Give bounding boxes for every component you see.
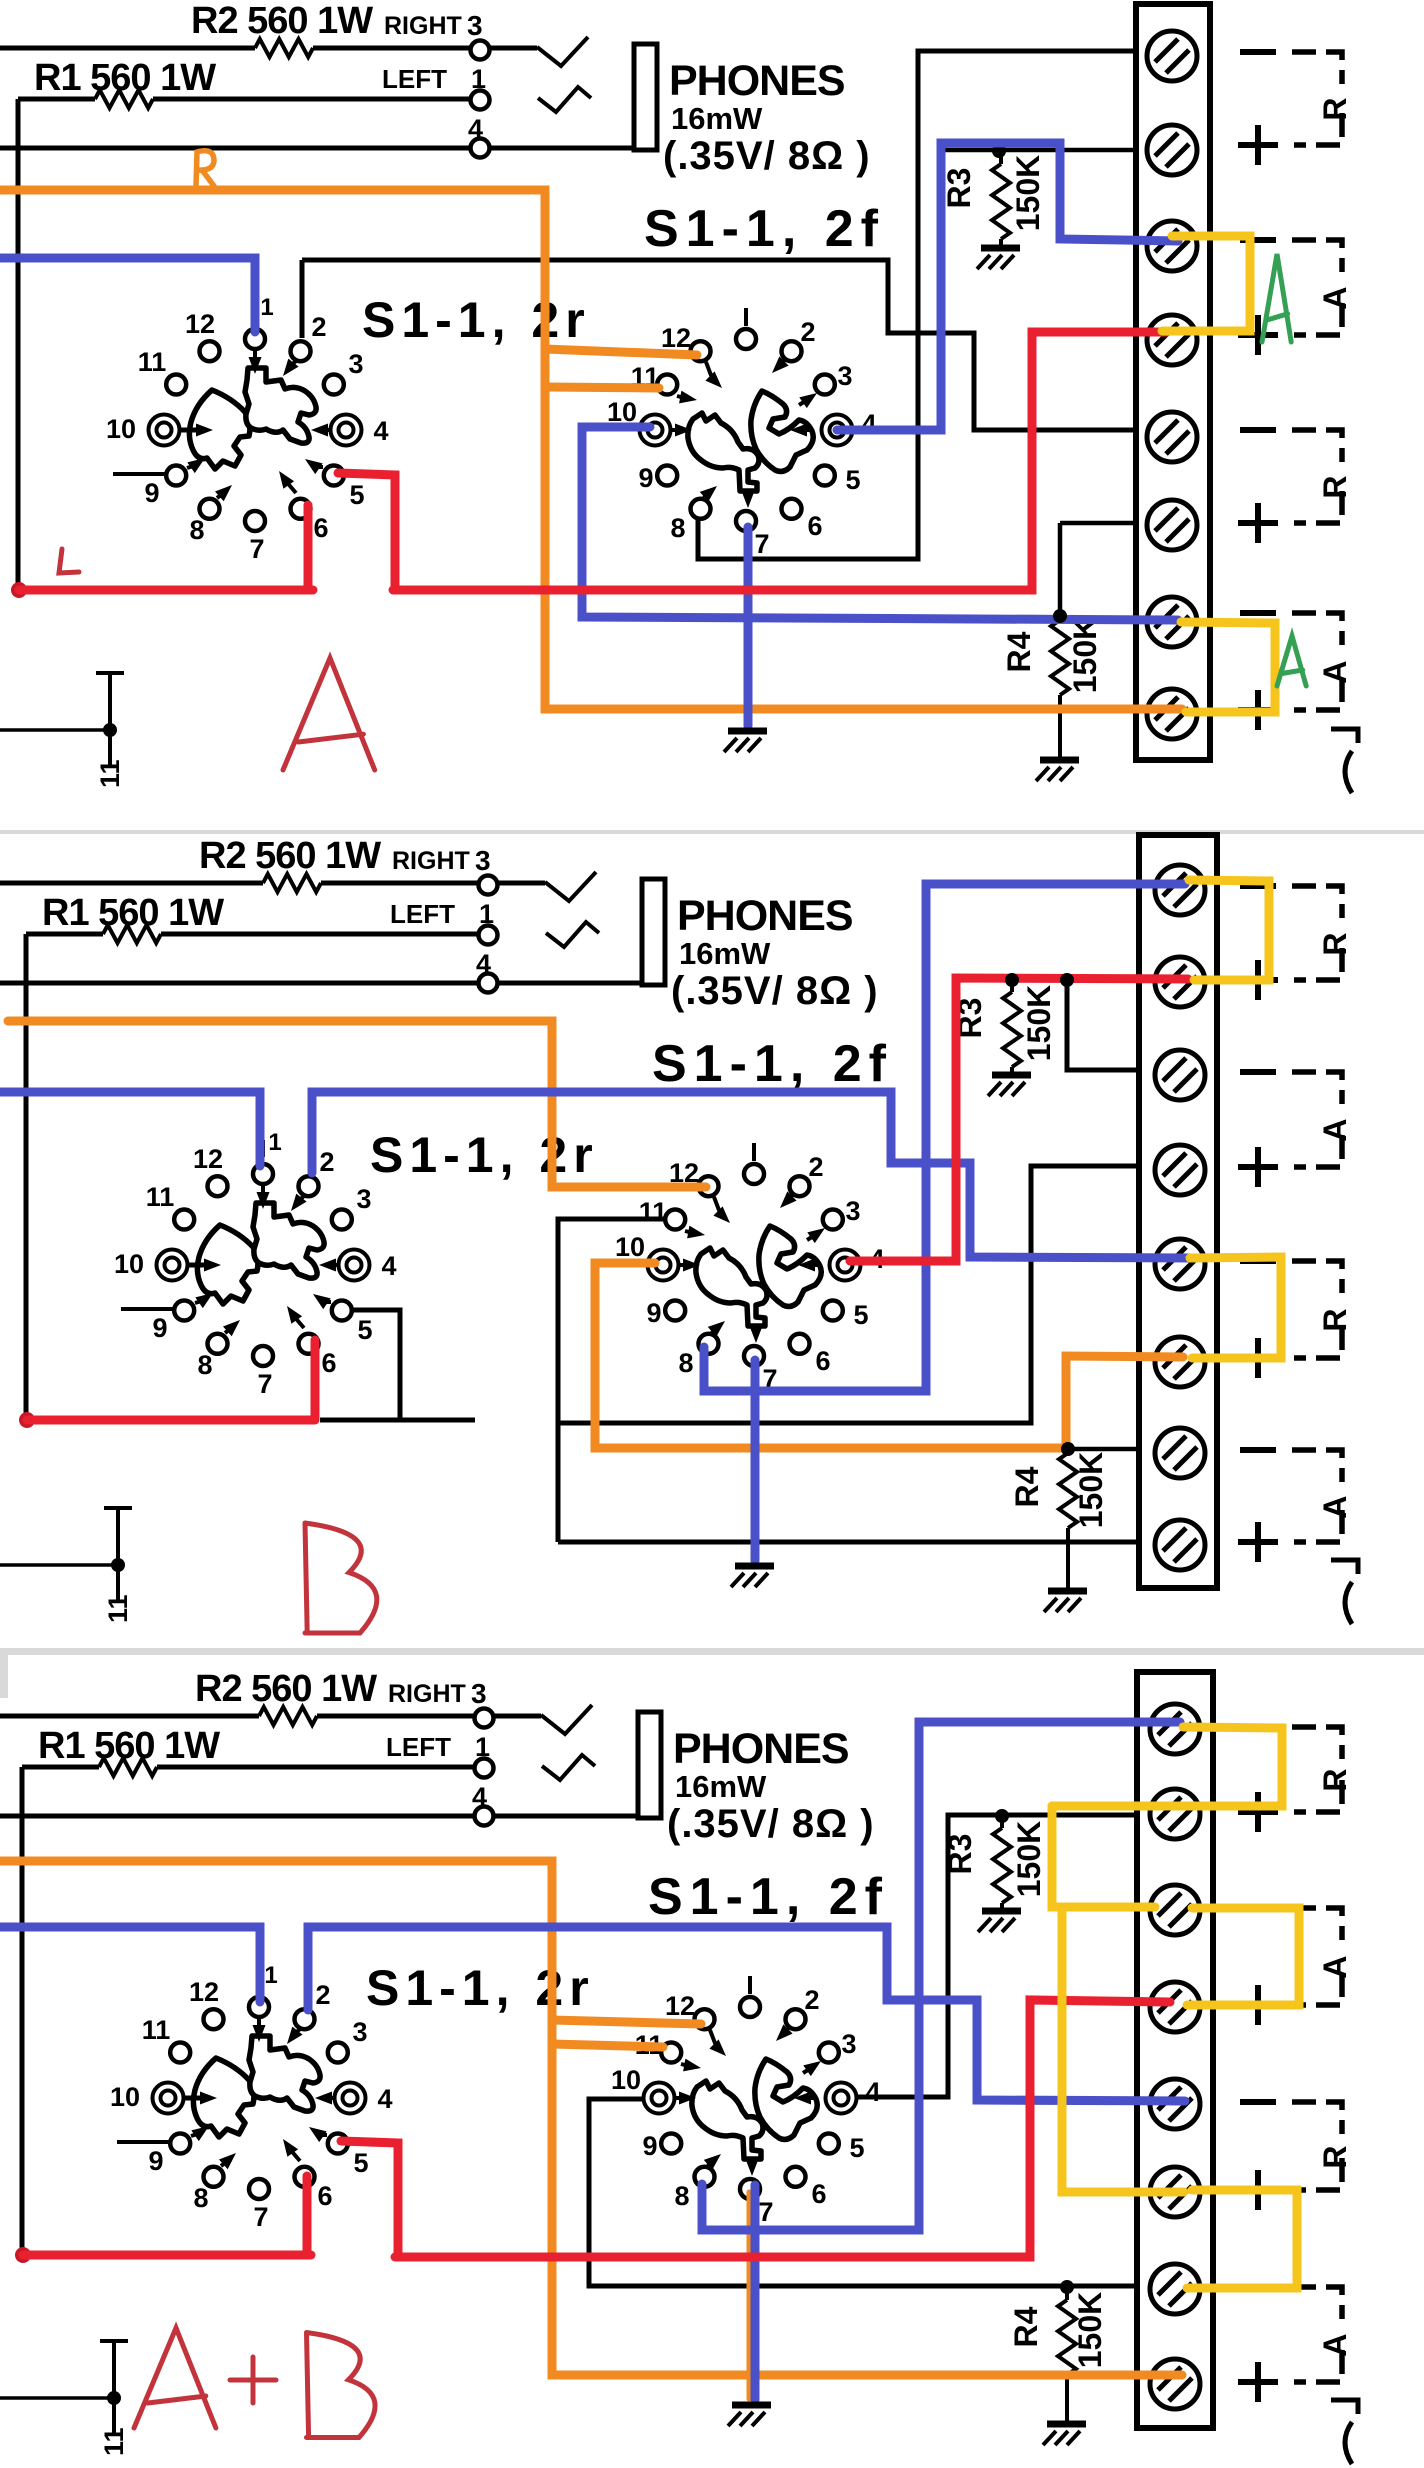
pin 1 tick of S1-1, 2f (panel A+B)	[748, 1976, 752, 1994]
wire R2 to jack contact 3 (panel A)	[313, 46, 471, 51]
svg-text:R4: R4	[1001, 631, 1037, 672]
rotary switch S1-1, 2f pin 1 (panel A+B)	[740, 1997, 760, 2017]
svg-text:9: 9	[144, 478, 159, 508]
pin 1 tick of S1-1, 2f (panel A)	[744, 308, 748, 326]
rotary switch S1-1, 2f pin 3 (panel A+B)	[819, 2043, 839, 2063]
svg-text:3: 3	[471, 1678, 487, 1709]
rotary switch S1-1, 2r pin 7 (panel A)	[245, 511, 265, 531]
resistor R2 560 1W (panel B)	[263, 874, 321, 892]
terminal screw 4 (panel A+B)	[1150, 1982, 1200, 2032]
rotary switch S1-1, 2r pin 11 (panel A)	[166, 375, 186, 395]
wire blue pin 7 to ground (panel B)	[751, 1360, 760, 1561]
terminal screw 4 (panel A)	[1147, 315, 1197, 365]
label A green lower (panel A)	[1277, 636, 1306, 686]
svg-text:A: A	[1317, 1495, 1353, 1518]
rotary switch S1-1, 2f pin number labels (panel B)	[615, 1152, 885, 1394]
rotary switch S1-1, 2f pin 12 (panel A+B)	[695, 2009, 715, 2029]
speaker terminal minus mark row (panel B bracket 2)	[1240, 1069, 1276, 1075]
rotary switch S1-1, 2r pin 5 (panel A)	[324, 466, 344, 486]
wire left input rail (panel B)	[24, 934, 29, 1423]
svg-text:7: 7	[758, 2197, 773, 2227]
terminal screw 2 (panel A)	[1147, 125, 1197, 175]
svg-text:R: R	[1317, 1768, 1353, 1791]
jack contact 3 (panel B)	[479, 876, 498, 895]
rotary switch S1-1, 2r pin 8 (panel B)	[208, 1334, 228, 1354]
speaker terminal plus mark (panel A bracket 4)	[1238, 707, 1278, 713]
svg-text:11: 11	[138, 347, 167, 377]
svg-text:6: 6	[811, 2179, 826, 2209]
svg-text:11: 11	[146, 1182, 175, 1212]
svg-text:10: 10	[110, 2082, 140, 2112]
svg-text:11: 11	[639, 1197, 668, 1227]
jack contact 3 (panel A)	[471, 41, 490, 60]
pin 1 tick of S1-1, 2r (panel A+B)	[257, 1973, 261, 1990]
node 11 vertical (panel A)	[108, 672, 112, 766]
rotary switch S1-1, 2r wiper arrows (panel A)	[178, 350, 334, 501]
svg-text:9: 9	[638, 463, 653, 493]
svg-text:R2 560 1W: R2 560 1W	[199, 835, 381, 877]
svg-text:16mW: 16mW	[675, 1769, 767, 1804]
svg-text:2: 2	[800, 317, 815, 347]
wire blue input to pin 1 (panel B)	[0, 1092, 260, 1166]
ground of pin 7 wire (panel A+B)	[732, 2402, 771, 2409]
speaker terminal plus mark (panel B bracket 4)	[1238, 1539, 1278, 1545]
svg-text:R3: R3	[941, 168, 977, 209]
wire blue pin 7 to ground (panel A+B)	[751, 2185, 760, 2400]
rotary switch S1-1, 2f pin 11 (panel A)	[657, 375, 677, 395]
rotary switch S1-1, 2f rotor (panel A)	[688, 413, 759, 491]
svg-text:R: R	[1317, 932, 1353, 955]
svg-text:S1-1, 2f: S1-1, 2f	[648, 1868, 889, 1926]
rotary switch S1-1, 2r pin 12 (panel B)	[208, 1176, 228, 1196]
terminal screw 3 (panel A+B)	[1150, 1885, 1200, 1935]
speaker terminal minus mark row (panel A+B bracket 1)	[1240, 1724, 1276, 1730]
partial next bracket (panel B)	[1331, 1560, 1358, 1574]
rotary switch S1-1, 2r wiper arrows (panel A+B)	[182, 2018, 338, 2169]
node 11 junction dot (panel A)	[103, 723, 117, 737]
svg-text:5: 5	[845, 465, 860, 495]
svg-text:6: 6	[815, 1346, 830, 1376]
svg-text:3: 3	[467, 10, 483, 41]
speaker terminal plus mark (panel A bracket 1)	[1238, 142, 1278, 148]
svg-text:(.35V/ 8Ω ): (.35V/ 8Ω )	[667, 1802, 875, 1846]
wire pin 4 to screw 2 (panel A+B)	[845, 1815, 1139, 2097]
svg-text:LEFT: LEFT	[382, 64, 447, 94]
wire blue pin 2 to screw 5 (panel B)	[312, 1092, 1189, 1258]
rotary switch S1-1, 2r wiper arrows (panel B)	[186, 1185, 342, 1336]
svg-text:11: 11	[103, 1594, 133, 1623]
rotary switch S1-1, 2f pin 4 (panel A)	[822, 415, 853, 446]
wire R4 vertical (panel A)	[1058, 523, 1063, 617]
svg-text:2: 2	[319, 1147, 334, 1177]
node R3 junction (panel B)	[1005, 973, 1019, 987]
node 11 stub wire (panel A+B)	[0, 2396, 113, 2400]
terminal screw 1 (panel A+B)	[1150, 1704, 1200, 1754]
node L input dot (panel B)	[19, 1412, 35, 1428]
rotary switch S1-1, 2f pin 4 (panel B)	[830, 1250, 861, 1281]
speaker bracket R (panel A bracket 1)	[1292, 52, 1342, 84]
speaker terminal plus mark (panel A+B bracket 3)	[1238, 2187, 1278, 2193]
jack contact 4 (panel A)	[471, 139, 490, 158]
terminal screw 8 (panel B)	[1155, 1520, 1205, 1570]
rotary switch S1-1, 2f pin 12 (panel B)	[699, 1176, 719, 1196]
wire yellow screw 1 to row2 mark (panel A+B)	[1052, 1727, 1282, 1806]
wire R1 rail (panel A+B)	[22, 1765, 99, 1770]
terminal screw 6 (panel B)	[1155, 1337, 1205, 1387]
wire pin 8 to terminal screw 1 (panel A)	[698, 51, 1136, 559]
speaker bracket A (panel B bracket 2)	[1292, 1072, 1342, 1104]
jack contact 1 (panel A+B)	[475, 1759, 494, 1778]
svg-text:4: 4	[865, 2077, 880, 2107]
rotary switch S1-1, 2r pin 11 (panel A+B)	[170, 2043, 190, 2063]
speaker terminal plus mark (panel A+B bracket 4)	[1238, 2379, 1278, 2385]
wire R1 rail (panel B)	[26, 932, 103, 937]
speaker bracket A (panel A bracket 4)	[1292, 613, 1342, 645]
wire red pin 4 to screw 2 (panel B)	[850, 978, 1188, 1261]
rotary switch S1-1, 2r pin 4 (panel A+B)	[335, 2083, 366, 2114]
pin 1 tick of S1-1, 2r (panel A)	[253, 305, 257, 322]
svg-text:LEFT: LEFT	[390, 899, 455, 929]
terminal screw 7 (panel B)	[1155, 1428, 1205, 1478]
wire pin 5 jog (panel B)	[350, 1310, 400, 1420]
wire yellow jumper screw 3 to screw 4 (panel A)	[1162, 236, 1250, 331]
node 11 vertical (panel A+B)	[112, 2340, 116, 2434]
node 11 vertical (panel B)	[116, 1507, 120, 1601]
rotary switch S1-1, 2r pin 12 (panel A+B)	[204, 2009, 224, 2029]
rotary switch S1-1, 2f pin 2 (panel A+B)	[786, 2009, 806, 2029]
pin 1 tick of S1-1, 2r (panel B)	[261, 1140, 265, 1157]
wire yellow jumper screw 6 to screw 7 (panel A+B)	[1187, 2190, 1297, 2288]
rotary switch S1-1, 2f pin 5 (panel B)	[823, 1301, 843, 1321]
svg-text:RIGHT: RIGHT	[392, 847, 470, 875]
rotary switch S1-1, 2r rotor (panel A)	[189, 390, 250, 469]
wire red pin 5 to screw 4 (panel A)	[338, 473, 395, 588]
rotary switch S1-1, 2f pin number labels (panel A+B)	[611, 1985, 881, 2227]
svg-text:3: 3	[845, 1196, 860, 1226]
svg-text:(.35V/ 8Ω ): (.35V/ 8Ω )	[663, 134, 871, 178]
label L red (panel A)	[59, 549, 79, 573]
svg-text:3: 3	[356, 1184, 371, 1214]
rotary switch S1-1, 2f pin number labels (panel A)	[607, 317, 877, 559]
ground of R3 (panel A)	[981, 245, 1020, 252]
terminal screw 2 (panel B)	[1155, 957, 1205, 1007]
svg-text:LEFT: LEFT	[386, 1732, 451, 1762]
svg-text:3: 3	[837, 361, 852, 391]
rotary switch S1-1, 2r pin 1 (panel A+B)	[249, 1997, 269, 2017]
resistor R4 150K (panel B)	[1059, 1453, 1077, 1528]
label B red (panel B)	[305, 1523, 377, 1633]
jack spring contact left (panel B)	[546, 922, 599, 947]
rotary switch S1-1, 2r pin 4 (panel A)	[331, 415, 362, 446]
wire R1 to jack contact 1 (panel A+B)	[157, 1765, 475, 1770]
svg-text:12: 12	[189, 1977, 219, 2007]
svg-text:2: 2	[311, 312, 326, 342]
speaker bracket R (panel B bracket 3)	[1292, 1261, 1342, 1293]
svg-text:8: 8	[674, 2181, 689, 2211]
speaker terminal plus mark (panel A bracket 3)	[1238, 520, 1278, 526]
wire pin 9 stub (panel A)	[113, 472, 167, 476]
label A green upper (panel A)	[1262, 254, 1291, 342]
wire blue pin 2 to screw 5 (panel A+B)	[308, 1927, 1185, 2101]
resistor R2 560 1W (panel A)	[255, 39, 313, 57]
terminal screw 2 (panel A+B)	[1150, 1789, 1200, 1839]
rotary switch S1-1, 2f pin 6 (panel B)	[790, 1334, 810, 1354]
wire yellow jumper screw 5 to screw 6 (panel B)	[1190, 1257, 1281, 1358]
svg-text:150K: 150K	[1010, 155, 1046, 232]
wire R1 to jack contact 1 (panel B)	[161, 932, 479, 937]
wire red L input to pin 6 (panel A+B)	[23, 2251, 311, 2260]
jack spring contact right (panel A)	[537, 37, 588, 66]
wire yellow jumper screw 1 to screw 2 (panel B)	[1189, 880, 1269, 980]
svg-text:1: 1	[264, 1962, 277, 1989]
wire R4 to screw 7 (panel B)	[1068, 1447, 1141, 1452]
svg-text:PHONES: PHONES	[669, 57, 845, 105]
rotary switch S1-1, 2r pin 7 (panel A+B)	[249, 2179, 269, 2199]
svg-text:A: A	[1317, 1955, 1353, 1978]
svg-text:150K: 150K	[1011, 1821, 1047, 1898]
label A+B red (panel A+B)	[134, 2328, 216, 2428]
svg-text:R: R	[1317, 1308, 1353, 1331]
resistor R1 560 1W (panel B)	[103, 925, 161, 943]
wire red L input to pin 6 (panel A)	[19, 586, 313, 595]
svg-text:2: 2	[315, 1980, 330, 2010]
wire red L input to pin 6 (panel B)	[27, 1416, 315, 1425]
svg-text:1: 1	[260, 294, 273, 321]
svg-text:5: 5	[849, 2133, 864, 2163]
rotary switch S1-1, 2r pin 9 (panel B)	[174, 1301, 194, 1321]
svg-text:4: 4	[377, 2084, 392, 2114]
rotary switch S1-1, 2r pin 3 (panel A)	[324, 375, 344, 395]
wire orange R input to rotary pins 12/11 and screw 8 (panel A)	[0, 190, 1182, 709]
svg-text:5: 5	[353, 2148, 368, 2178]
jack contact 4 (panel B)	[479, 974, 498, 993]
speaker terminal minus mark row (panel A+B bracket 3)	[1240, 2099, 1276, 2105]
rotary switch S1-1, 2f pin 11 (panel A+B)	[661, 2043, 681, 2063]
wire orange pin 7 to ground (panel A+B)	[747, 2192, 752, 2399]
node L input dot (panel A)	[11, 582, 27, 598]
svg-text:1: 1	[268, 1129, 281, 1156]
wire yellow down to screw 6 (panel A+B)	[1062, 1910, 1184, 2192]
svg-text:8: 8	[678, 1348, 693, 1378]
svg-text:(.35V/ 8Ω ): (.35V/ 8Ω )	[671, 969, 879, 1013]
svg-text:5: 5	[357, 1315, 372, 1345]
node R4 junction (panel A)	[1053, 609, 1067, 623]
resistor R1 560 1W (panel A)	[95, 90, 153, 108]
speaker terminal minus mark row (panel A bracket 1)	[1240, 49, 1276, 55]
svg-text:10: 10	[106, 414, 136, 444]
wire orange input to pin 12 (panel B)	[8, 1021, 706, 1187]
wire blue screw 1 to pin 8 (panel B)	[704, 884, 1185, 1391]
terminal screw 5 (panel B)	[1155, 1239, 1205, 1289]
rotary switch S1-1, 2r pin 4 (panel B)	[339, 1250, 370, 1281]
rotary switch S1-1, 2f pin 7 (panel A)	[736, 511, 756, 531]
wire pin 11 to screws 4 and 8 (panel B)	[558, 1219, 670, 1542]
panel separator band 2	[0, 1648, 1424, 1655]
rotary switch S1-1, 2r pin 5 (panel B)	[332, 1301, 352, 1321]
svg-text:8: 8	[670, 513, 685, 543]
rotary switch S1-1, 2r pin 12 (panel A)	[200, 341, 220, 361]
speaker bracket A (panel A+B bracket 2)	[1292, 1908, 1342, 1940]
svg-text:R1 560 1W: R1 560 1W	[34, 57, 216, 99]
wire left input rail (panel A+B)	[20, 1767, 25, 2256]
terminal screw 5 (panel A+B)	[1150, 2079, 1200, 2129]
rotary switch S1-1, 2r pin 6 (panel A+B)	[295, 2167, 315, 2187]
wire blue input to pin 1 (panel A)	[0, 258, 255, 332]
svg-text:6: 6	[321, 1348, 336, 1378]
svg-text:10: 10	[615, 1232, 645, 1262]
svg-text:RIGHT: RIGHT	[384, 12, 462, 40]
ground of pin 7 wire (panel A)	[728, 728, 767, 735]
rotary switch S1-1, 2r pin 3 (panel A+B)	[328, 2043, 348, 2063]
rotary switch S1-1, 2r pin 6 (panel A)	[291, 499, 311, 519]
svg-text:R1 560 1W: R1 560 1W	[38, 1725, 220, 1767]
wire blue input to pin 1 (panel A+B)	[0, 1927, 260, 2002]
svg-text:9: 9	[642, 2131, 657, 2161]
wire orange branch to pin 12 (panel A)	[545, 349, 697, 355]
jack spring contact right (panel A+B)	[541, 1705, 592, 1734]
wire orange branch to pin 11 (panel A)	[545, 387, 659, 388]
terminal screw 6 (panel A+B)	[1150, 2167, 1200, 2217]
svg-text:PHONES: PHONES	[677, 892, 853, 940]
svg-text:R1 560 1W: R1 560 1W	[42, 892, 224, 934]
label R orange (panel A)	[196, 151, 214, 186]
svg-text:4: 4	[381, 1251, 396, 1281]
wire top rail to R2 (panel B)	[0, 881, 263, 886]
rotary switch S1-1, 2r pin 8 (panel A+B)	[204, 2167, 224, 2187]
rotary switch S1-1, 2r rotor (panel B)	[197, 1225, 258, 1304]
wire bottom stub (panel B)	[320, 1418, 475, 1423]
svg-text:11: 11	[99, 2427, 129, 2456]
speaker terminal plus mark (panel A+B bracket 1)	[1238, 1809, 1278, 1815]
wire blue screw 1 to pin 8 (panel A+B)	[702, 1722, 1180, 2230]
resistor R4 150K (panel A)	[1051, 620, 1069, 695]
svg-text:11: 11	[95, 759, 125, 788]
svg-text:10: 10	[114, 1249, 144, 1279]
wire R3 junction to screw 3 hook (panel B)	[1067, 980, 1141, 1070]
rotary switch S1-1, 2f pin 7 (panel B)	[744, 1346, 764, 1366]
wire contact 3 to spring (panel A+B)	[494, 1714, 541, 1719]
svg-text:RIGHT: RIGHT	[388, 1680, 466, 1708]
svg-text:R: R	[1317, 2145, 1353, 2168]
svg-text:16mW: 16mW	[679, 936, 771, 971]
terminal screw 8 (panel A)	[1147, 689, 1197, 739]
rotary switch S1-1, 2r pin 2 (panel A+B)	[295, 2009, 315, 2029]
speaker terminal plus mark (panel B bracket 2)	[1238, 1164, 1278, 1170]
wire orange branch to pin 12 (panel A+B)	[552, 2020, 701, 2024]
rotary switch S1-1, 2r pin 6 (panel B)	[299, 1334, 319, 1354]
rotary switch S1-1, 2f wiper arrows (panel A)	[670, 356, 817, 508]
node R3 junction (panel A)	[992, 144, 1006, 158]
wire blue pin 7 to ground (panel A)	[744, 527, 753, 726]
speaker terminal plus mark (panel B bracket 1)	[1238, 977, 1278, 983]
svg-text:R: R	[1317, 475, 1353, 498]
speaker terminal minus mark row (panel A+B bracket 2)	[1240, 1905, 1276, 1911]
svg-text:3: 3	[352, 2017, 367, 2047]
wire contact 4 to jack body (panel A+B)	[494, 1814, 638, 1819]
speaker bracket A (panel B bracket 4)	[1292, 1450, 1342, 1482]
node R4 junction (panel A+B)	[1060, 2280, 1074, 2294]
svg-text:7: 7	[249, 534, 264, 564]
rotary switch S1-1, 2f pin 8 (panel B)	[699, 1334, 719, 1354]
rotary switch S1-1, 2r pin 1 (panel B)	[253, 1164, 273, 1184]
wire R1 to jack contact 1 (panel A)	[153, 97, 471, 102]
terminal screw 5 (panel A)	[1147, 412, 1197, 462]
node 11 junction dot (panel A+B)	[107, 2391, 121, 2405]
terminal screw 1 (panel A)	[1147, 31, 1197, 81]
svg-text:A: A	[1317, 660, 1353, 683]
svg-text:9: 9	[152, 1313, 167, 1343]
wire pin 10 to screw 7 (panel A+B)	[589, 2099, 1139, 2286]
svg-text:8: 8	[193, 2183, 208, 2213]
svg-text:10: 10	[611, 2065, 641, 2095]
resistor R3 150K (panel B)	[1010, 980, 1014, 992]
svg-text:6: 6	[313, 513, 328, 543]
svg-text:5: 5	[349, 480, 364, 510]
terminal screw 8 (panel A+B)	[1150, 2359, 1200, 2409]
svg-text:S1-1, 2r: S1-1, 2r	[366, 1960, 595, 2016]
resistor R3 150K (panel A+B)	[1000, 1816, 1004, 1828]
wire orange pin 10 to screw 6 (panel B)	[595, 1263, 1183, 1448]
svg-text:7: 7	[257, 1369, 272, 1399]
svg-text:12: 12	[185, 309, 215, 339]
svg-text:16mW: 16mW	[671, 101, 763, 136]
rotary switch S1-1, 2f pin 1 (panel A)	[736, 329, 756, 349]
speaker terminal minus mark row (panel B bracket 1)	[1240, 883, 1276, 889]
wire pin 9 stub (panel A+B)	[117, 2140, 171, 2144]
wire yellow down to screw 3 (panel A+B)	[1052, 1806, 1155, 1907]
wire R1 rail (panel A)	[18, 97, 95, 102]
wire rail S1 to terminal screw 5 (panel A)	[302, 260, 1136, 430]
speaker bracket R (panel A bracket 3)	[1292, 430, 1342, 462]
svg-text:R4: R4	[1009, 1466, 1045, 1507]
rotary switch S1-1, 2f pin 2 (panel A)	[782, 341, 802, 361]
rotary switch S1-1, 2f pin 10 (panel A)	[640, 415, 671, 446]
wire R2 to jack contact 3 (panel A+B)	[317, 1714, 475, 1719]
node R3 junction (panel A+B)	[995, 1809, 1009, 1823]
rotary switch S1-1, 2f pin 11 (panel B)	[665, 1210, 685, 1230]
node 11 stub wire (panel B)	[0, 1563, 117, 1567]
rotary switch S1-1, 2r pin number labels (panel A)	[106, 294, 389, 564]
speaker terminal minus mark row (panel A bracket 4)	[1240, 610, 1276, 616]
svg-text:2: 2	[808, 1152, 823, 1182]
svg-text:12: 12	[665, 1991, 695, 2021]
svg-text:S1-1, 2f: S1-1, 2f	[652, 1035, 893, 1093]
rotary switch S1-1, 2f pin 8 (panel A+B)	[695, 2167, 715, 2187]
rotary switch S1-1, 2f pin 9 (panel B)	[665, 1301, 685, 1321]
jack spring contact left (panel A)	[538, 87, 591, 112]
wire top rail to R2 (panel A)	[0, 46, 255, 51]
wire contact 3 to spring (panel A)	[490, 46, 537, 51]
wire yellow jumper screw 7 to screw 8 (panel A)	[1181, 622, 1275, 712]
svg-text:9: 9	[148, 2146, 163, 2176]
terminal strip body (panel B)	[1139, 835, 1217, 1588]
node 11 stub wire (panel A)	[0, 728, 109, 732]
jack contact 3 (panel A+B)	[475, 1709, 494, 1728]
rotary switch S1-1, 2r pin 2 (panel A)	[291, 341, 311, 361]
resistor R2 560 1W (panel A+B)	[259, 1707, 317, 1725]
svg-text:3: 3	[841, 2029, 856, 2059]
svg-text:PHONES: PHONES	[673, 1725, 849, 1773]
ground of R4 (panel B)	[1048, 1588, 1087, 1595]
svg-text:6: 6	[807, 511, 822, 541]
jack spring contact right (panel B)	[545, 872, 596, 901]
ground of pin 7 wire (panel B)	[735, 1563, 774, 1570]
terminal screw 4 (panel B)	[1155, 1145, 1205, 1195]
wire R2 to jack contact 3 (panel B)	[321, 881, 479, 886]
svg-text:8: 8	[189, 515, 204, 545]
rotary switch S1-1, 2r pin 9 (panel A+B)	[170, 2134, 190, 2154]
rotary switch S1-1, 2f rotor (panel B)	[696, 1248, 767, 1326]
